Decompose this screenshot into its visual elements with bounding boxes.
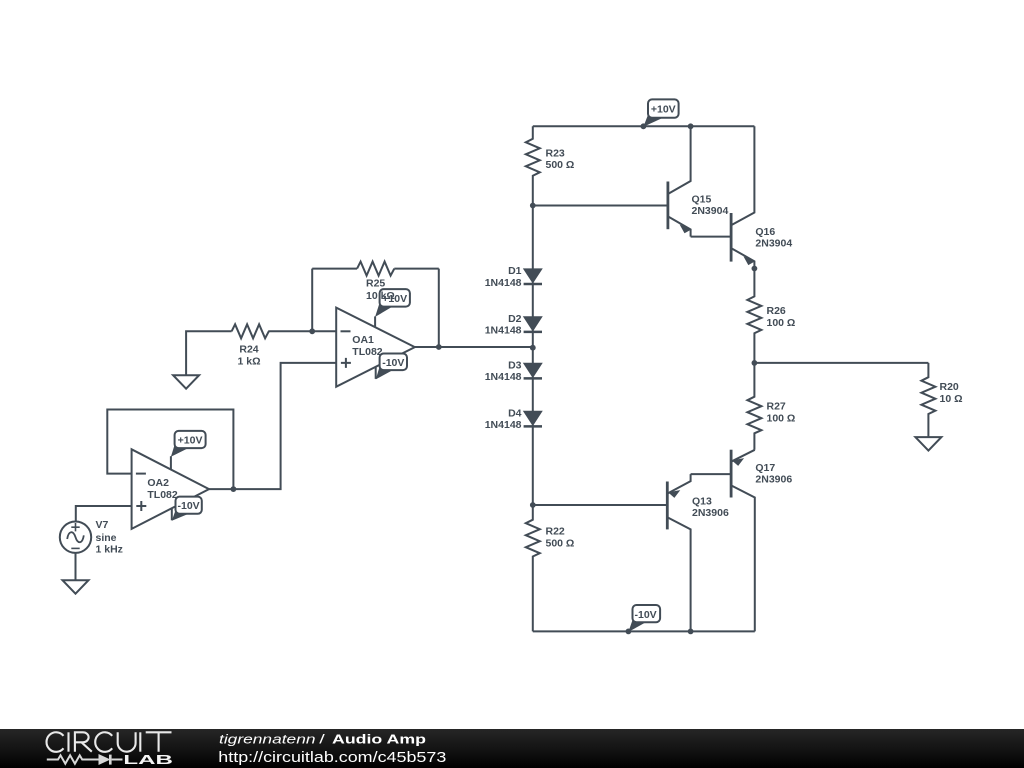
diode D2 [485,313,542,348]
svg-text:1N4148: 1N4148 [485,277,522,289]
node -10V tail junction [626,629,632,635]
wire OA1 feedback right vertical [438,269,440,347]
wire Q13 emitter to Q17 base [691,473,732,475]
diode D1 [485,265,542,317]
svg-text:+10V: +10V [178,435,203,447]
svg-text:OA1: OA1 [352,334,374,346]
svg-text:Q17: Q17 [755,462,775,474]
svg-text:-10V: -10V [382,357,404,369]
svg-text:10 Ω: 10 Ω [940,393,963,405]
svg-text:Audio Amp: Audio Amp [332,731,426,746]
node diode-chain / OA1 output junction [530,345,536,351]
resistor R24 [232,324,269,367]
svg-text:http://circuitlab.com/c45b573: http://circuitlab.com/c45b573 [218,749,446,766]
transistor Q17 [731,450,792,632]
svg-text:R26: R26 [767,305,786,317]
label OA1 [352,334,383,358]
transistor Q16 [731,126,792,268]
svg-text:OA2: OA2 [147,477,169,489]
node OA2 output junction [231,486,237,492]
flag +10V OA1 [375,289,410,317]
svg-text:Q16: Q16 [755,226,775,238]
wire top +10V rail [533,125,755,127]
wire OA1 feedback left vertical [311,269,313,332]
resistor R20 [921,363,962,437]
wire R24 to OA1 [268,330,336,332]
wire V7 to ground [75,553,77,580]
wire output to R20 [754,362,928,364]
svg-text:500 Ω: 500 Ω [546,159,575,171]
svg-text:1N4148: 1N4148 [485,419,522,431]
node OA1 output junction [436,344,442,350]
node Q15 collector rail junction [688,123,694,129]
wire R24 left to ground [186,331,232,375]
diode D4 [485,407,542,505]
flag -10V OA1 [376,354,407,380]
resistor R26 [747,269,795,363]
wire OA1 feedback top left [312,268,357,270]
svg-text:1N4148: 1N4148 [485,325,522,337]
wire to D1 [532,206,534,270]
op-amp OA1 [336,308,415,387]
wire Q13 base [533,504,668,506]
flag -10V OA2 [172,497,202,521]
transistor Q13 [667,474,729,631]
svg-text:TL082: TL082 [147,489,178,501]
svg-text:Q13: Q13 [692,496,712,508]
wire V7 to OA2 plus input [76,506,132,521]
svg-text:+10V: +10V [651,104,676,116]
svg-text:1N4148: 1N4148 [485,371,522,383]
op-amp OA2 [132,449,209,529]
svg-text:R20: R20 [940,381,959,393]
voltage source V7 [60,519,123,556]
svg-text:D3: D3 [508,359,522,371]
node Q13 collector rail junction [688,629,694,635]
svg-text:100 Ω: 100 Ω [767,413,796,425]
node +10V tail junction [641,123,647,129]
svg-text:100 Ω: 100 Ω [767,317,796,329]
svg-text:1 kHz: 1 kHz [96,543,123,555]
svg-text:TL082: TL082 [352,346,383,358]
svg-text:2N3904: 2N3904 [692,205,729,217]
wire OA2 output to OA1 plus input [209,363,336,489]
svg-text:-10V: -10V [635,609,657,621]
svg-text:R24: R24 [239,343,258,355]
svg-text:R25: R25 [366,278,385,290]
resistor R25 [357,262,394,276]
svg-text:D2: D2 [508,313,522,325]
resistor R23 [526,126,575,205]
svg-text:-10V: -10V [178,500,200,512]
node output junction [752,360,758,366]
svg-text:R22: R22 [546,526,565,538]
diode D3 [485,359,542,411]
svg-text:10 kΩ: 10 kΩ [366,290,395,302]
node OA1 inverting input junction [309,328,315,334]
wire OA1 output to diode chain [415,346,533,348]
svg-text:2N3904: 2N3904 [755,238,792,250]
node Q16 emitter junction [752,266,758,272]
logo CIRCUIT wordmark [47,732,172,752]
svg-text:500 Ω: 500 Ω [546,538,575,550]
svg-text:Q15: Q15 [692,194,712,206]
svg-text:R27: R27 [767,401,786,413]
footer bar [0,729,1024,768]
flag -10V bottom rail [628,605,660,632]
ground R20 [915,437,941,451]
svg-text:sine: sine [96,532,117,544]
wire OA2 feedback loop [107,410,233,490]
transistor Q15 [668,126,729,236]
wire OA1 feedback top right [394,268,439,270]
ground R24 [173,375,199,389]
node D4 / R22 / Q13 base junction [530,502,536,508]
label R25 [366,278,395,303]
resistor R22 [526,505,575,631]
flag +10V top rail [643,99,678,126]
svg-text:D4: D4 [508,407,522,419]
label OA2 [147,477,178,501]
svg-text:D1: D1 [508,265,522,277]
svg-text:tigrennatenn: tigrennatenn [219,731,316,746]
svg-text:2N3906: 2N3906 [692,507,729,519]
svg-text:V7: V7 [96,519,109,531]
resistor R27 [747,363,795,450]
wire Q15 base [533,205,668,207]
flag +10V OA2 [171,431,206,457]
wire Q15 emitter to Q16 base [691,236,732,238]
svg-text:/: / [319,731,325,746]
svg-text:1 kΩ: 1 kΩ [237,356,260,368]
ground V7 [63,580,89,594]
svg-text:LAB: LAB [123,752,172,767]
logo resistor-diode glyph [47,755,123,765]
wire bottom -10V rail [533,630,755,632]
svg-text:2N3906: 2N3906 [755,474,792,486]
svg-text:R23: R23 [546,147,565,159]
wire to D3 [532,348,534,364]
node R23-bottom junction [530,203,536,209]
